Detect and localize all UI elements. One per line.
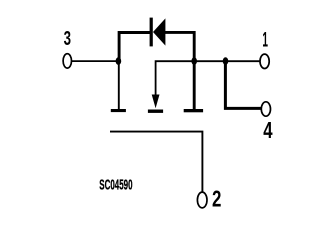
diode D1 anode triangle <box>153 18 165 45</box>
body electrode bar <box>148 110 163 113</box>
wire to terminal 4 <box>225 61 261 108</box>
terminal 1 circle <box>260 54 269 68</box>
junction dot source node <box>191 57 197 65</box>
wire diode loop right and source drop <box>165 32 194 109</box>
wire body rail to terminal 1 <box>156 61 260 95</box>
junction dot terminal-4 branch <box>223 57 229 65</box>
terminal 3 circle <box>63 54 71 68</box>
svg-text:3: 3 <box>64 28 71 50</box>
svg-text:2: 2 <box>212 186 221 212</box>
diode D1 cathode bar <box>150 18 153 47</box>
terminal 4 circle <box>261 102 270 116</box>
body arrow head <box>152 95 160 109</box>
gate electrode bar <box>111 109 126 112</box>
svg-text:SC04590: SC04590 <box>99 177 132 193</box>
source electrode bar <box>184 109 203 112</box>
terminal 2 circle <box>197 192 207 208</box>
svg-text:1: 1 <box>262 28 268 51</box>
channel line and wire to terminal 2 <box>110 132 202 192</box>
wire gate vertical <box>118 61 120 110</box>
svg-text:4: 4 <box>263 117 272 143</box>
junction dot gate node <box>116 57 122 65</box>
wire diode loop (riser and top run) <box>119 33 150 61</box>
wire gate lead from terminal 3 <box>72 60 117 62</box>
